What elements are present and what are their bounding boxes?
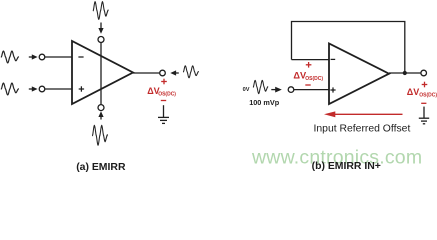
svg-text:(b) EMIRR IN+: (b) EMIRR IN+ — [312, 161, 381, 172]
svg-text:Input Referred Offset: Input Referred Offset — [314, 124, 411, 135]
svg-text:OS(DC): OS(DC) — [158, 91, 176, 97]
svg-text:OS(DC): OS(DC) — [419, 92, 437, 98]
svg-text:ΔV: ΔV — [407, 87, 419, 97]
svg-text:(a) EMIRR: (a) EMIRR — [76, 162, 126, 173]
svg-text:100 mVp: 100 mVp — [249, 98, 280, 107]
svg-text:0V: 0V — [243, 87, 250, 93]
svg-text:OS(DC): OS(DC) — [305, 76, 323, 82]
